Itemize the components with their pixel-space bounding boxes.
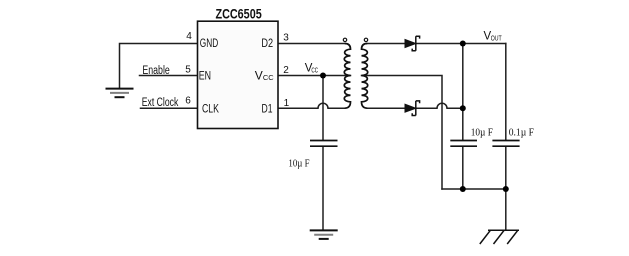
svg-text:EN: EN <box>199 69 211 83</box>
svg-text:4: 4 <box>186 31 192 42</box>
svg-text:10µ F: 10µ F <box>288 159 309 170</box>
svg-text:OUT: OUT <box>491 36 503 43</box>
svg-text:CLK: CLK <box>202 102 219 116</box>
svg-text:1: 1 <box>284 98 290 109</box>
svg-text:GND: GND <box>200 36 219 50</box>
svg-text:6: 6 <box>185 96 191 107</box>
svg-text:D1: D1 <box>262 102 273 116</box>
svg-text:Ext Clock: Ext Clock <box>142 97 179 109</box>
svg-text:0.1µ F: 0.1µ F <box>509 128 534 139</box>
svg-text:10µ F: 10µ F <box>471 128 493 139</box>
svg-text:ZCC6505: ZCC6505 <box>216 5 262 21</box>
svg-text:D2: D2 <box>261 36 273 50</box>
svg-text:3: 3 <box>283 32 289 43</box>
svg-text:2: 2 <box>283 65 289 76</box>
svg-text:Enable: Enable <box>142 65 169 77</box>
svg-text:CC: CC <box>311 67 318 74</box>
svg-text:5: 5 <box>185 64 191 75</box>
